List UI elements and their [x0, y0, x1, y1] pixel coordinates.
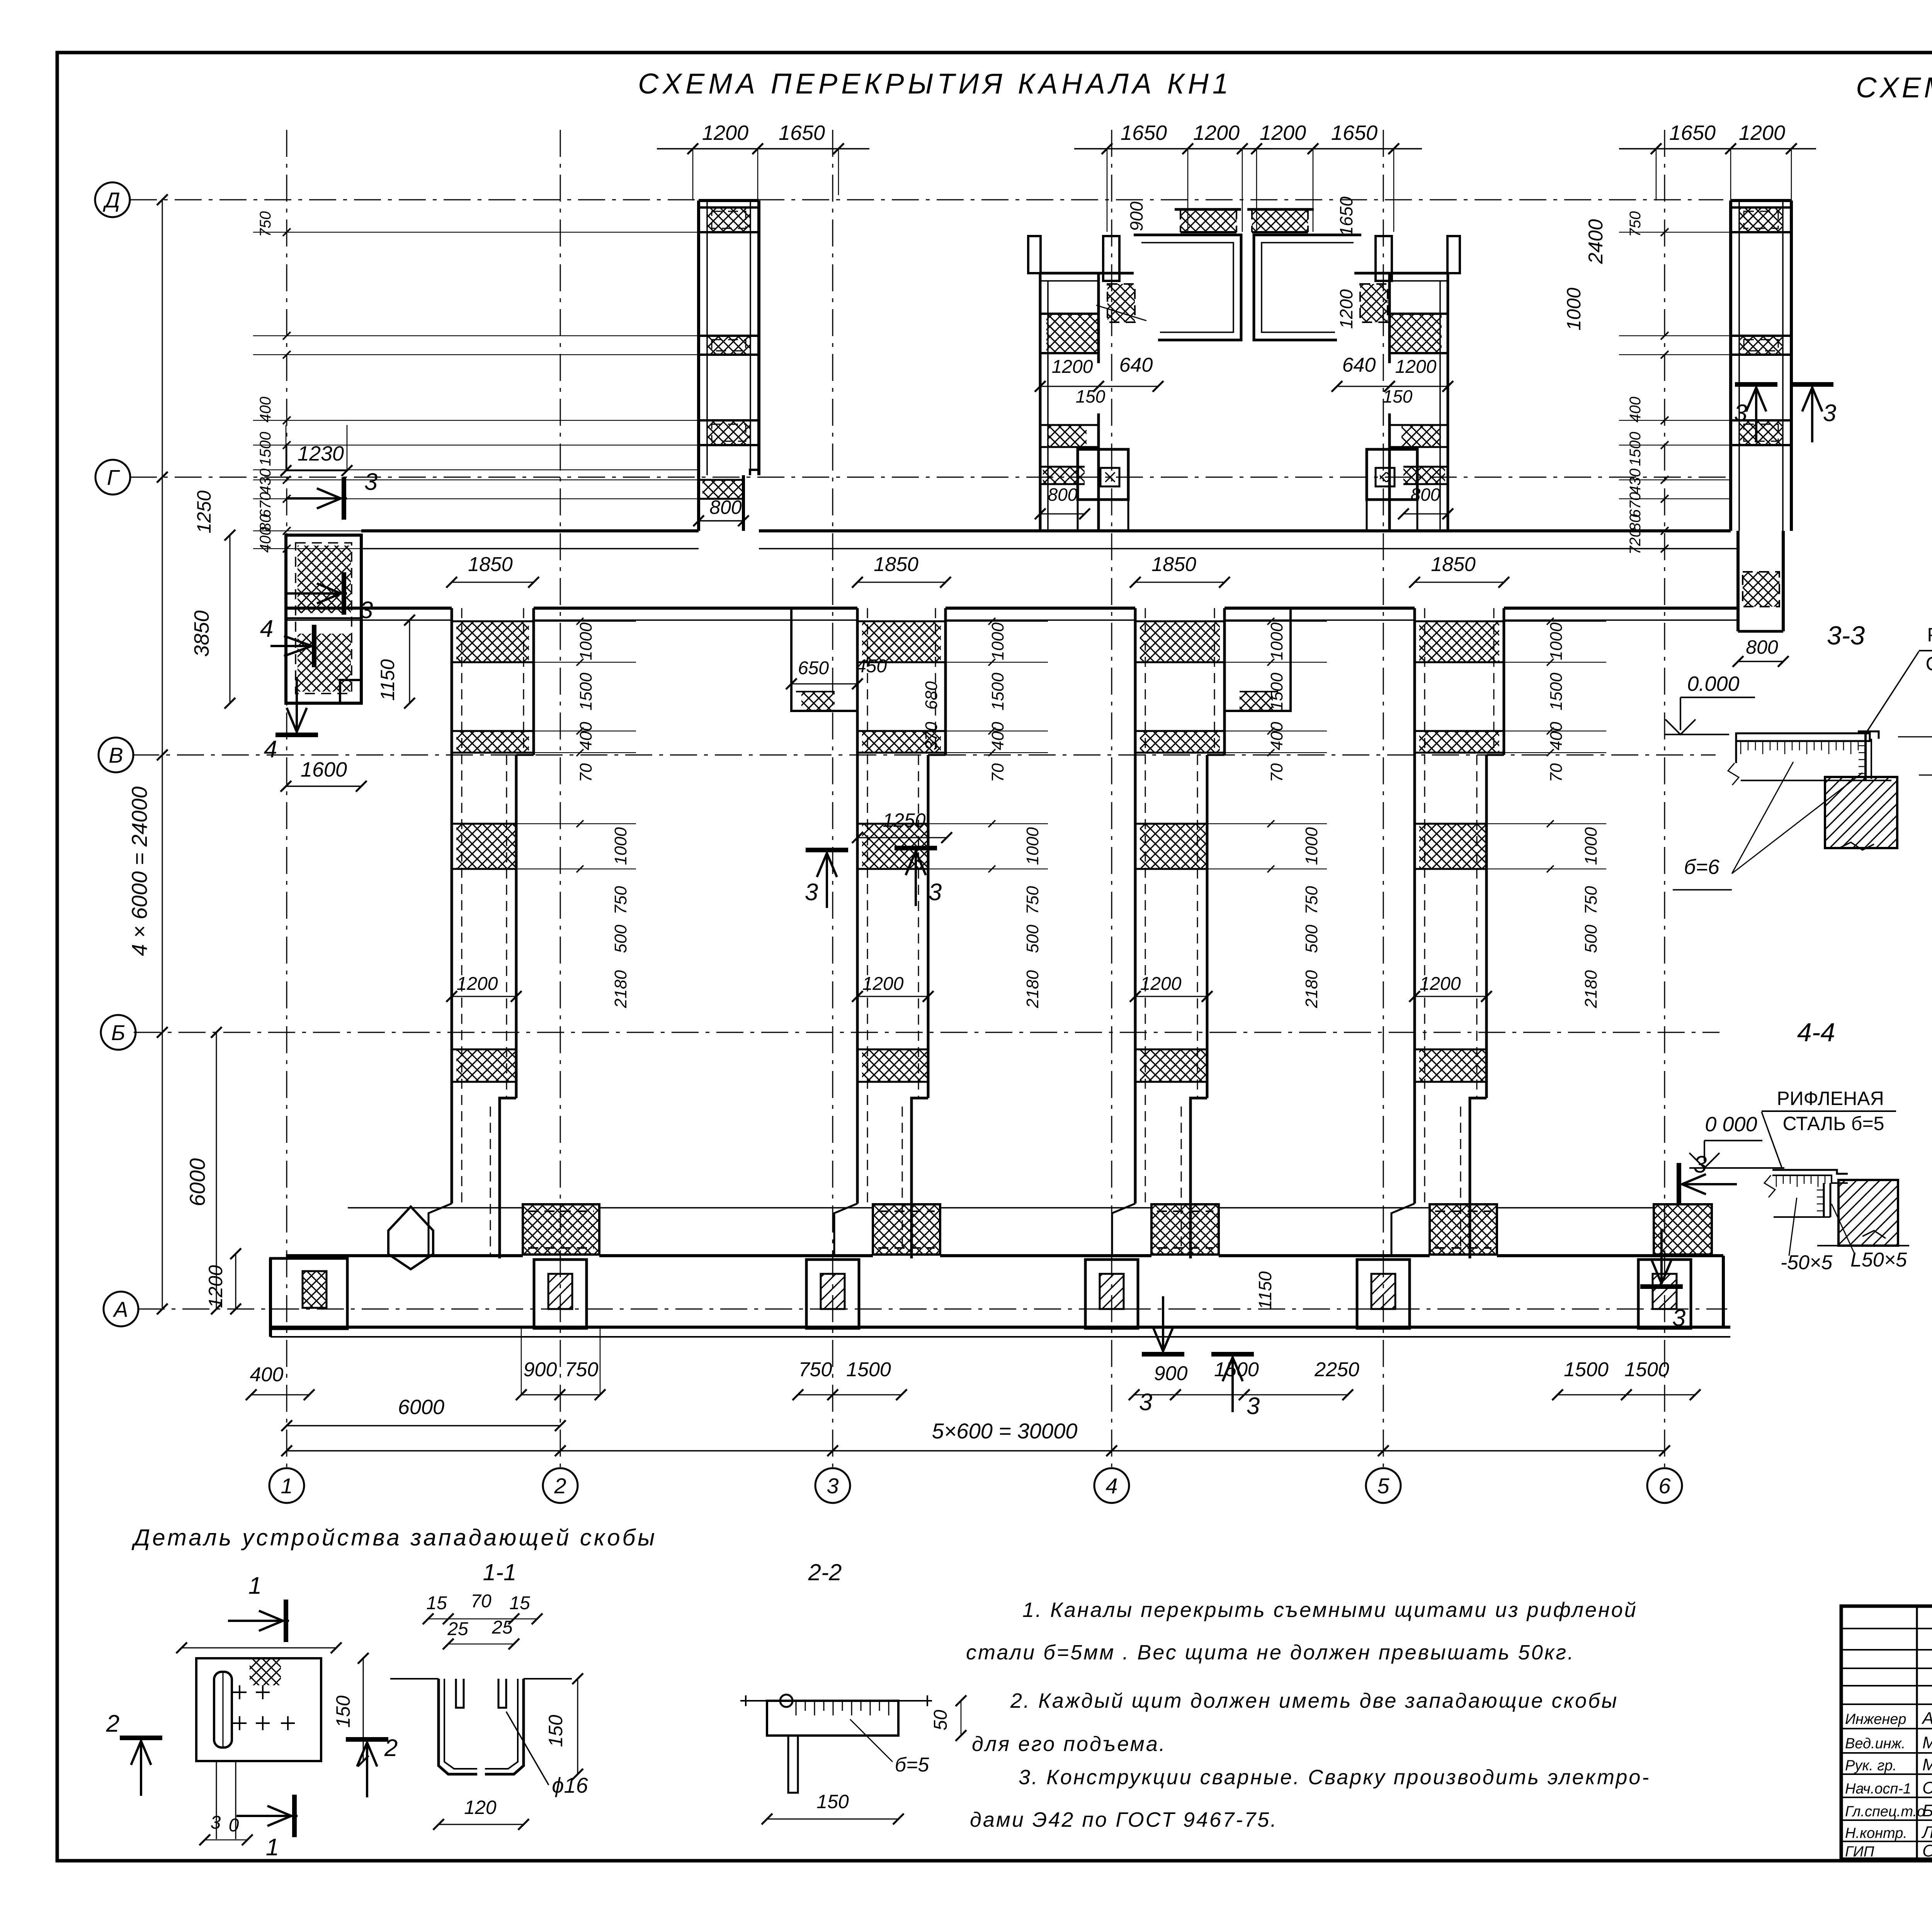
svg-text:70: 70: [471, 1591, 492, 1612]
svg-text:1: 1: [266, 1834, 279, 1861]
svg-text:3: 3: [1823, 400, 1836, 427]
section marks 3 under L2: [806, 848, 848, 852]
svg-text:1200: 1200: [1420, 974, 1461, 994]
channel strip D (top, near axis 6): [1731, 199, 1791, 202]
svg-text:400: 400: [1267, 722, 1286, 750]
section marks 3 at corner: [342, 477, 346, 520]
svg-text:750: 750: [1023, 886, 1042, 915]
svg-text:15: 15: [1930, 756, 1932, 776]
svg-text:РИФЛЕНАЯ: РИФЛЕНАЯ: [1777, 1088, 1884, 1109]
axis row A: [138, 1309, 1727, 1310]
svg-text:3: 3: [1734, 400, 1747, 427]
step structure right of L3: [1225, 608, 1291, 711]
svg-text:3. Конструкции сварные. Сва: 3. Конструкции сварные. Сварку производи…: [1019, 1766, 1650, 1789]
svg-text:Гл.спец.т.о: Гл.спец.т.о: [1845, 1804, 1925, 1820]
svg-text:3: 3: [827, 1474, 838, 1498]
concrete block (4-4): [1838, 1180, 1898, 1246]
svg-text:1150: 1150: [1255, 1271, 1275, 1309]
bracket slot: [214, 1672, 232, 1748]
marks 2 (detail plan): [120, 1736, 162, 1740]
svg-text:670: 670: [257, 492, 274, 518]
svg-text:1150: 1150: [377, 659, 398, 701]
svg-text:750: 750: [1302, 886, 1321, 915]
axis column 1: [286, 130, 287, 1467]
svg-text:1200: 1200: [1052, 357, 1093, 377]
svg-text:2: 2: [554, 1474, 566, 1498]
svg-text:3: 3: [1247, 1393, 1260, 1419]
svg-text:0 000: 0 000: [1705, 1113, 1757, 1136]
svg-text:400: 400: [1627, 397, 1644, 423]
svg-text:900: 900: [524, 1358, 557, 1381]
detail plan (bracket): [284, 1600, 288, 1642]
svg-text:СΧЕМА ПЕРЕКРЫТИЯ КАНАЛА КН2: СΧЕМА ПЕРЕКРЫТИЯ КАНАЛА КН2: [1856, 71, 1932, 104]
svg-text:25: 25: [447, 1619, 468, 1639]
svg-text:400: 400: [1547, 722, 1566, 750]
svg-text:1850: 1850: [468, 553, 513, 576]
svg-text:3-3: 3-3: [1827, 621, 1865, 650]
svg-text:150: 150: [545, 1715, 566, 1747]
section marks 3 at strip D: [1735, 382, 1777, 387]
svg-text:стали б=5мм . Вес щита не: стали б=5мм . Вес щита не должен превыша…: [966, 1641, 1575, 1664]
svg-text:Моргунов: Моргунов: [1922, 1755, 1932, 1774]
svg-text:2-2: 2-2: [808, 1559, 842, 1585]
C-channel structure at axis 5 (mirrored): [1447, 236, 1460, 273]
svg-text:1000: 1000: [1023, 827, 1042, 865]
svg-text:120: 120: [464, 1797, 497, 1818]
svg-text:1850: 1850: [1431, 553, 1476, 576]
svg-text:1230: 1230: [298, 442, 344, 465]
svg-text:400: 400: [257, 397, 274, 423]
strip A tail: [750, 470, 759, 475]
svg-text:1600: 1600: [301, 758, 347, 781]
svg-text:Г: Г: [107, 465, 120, 490]
svg-text:750: 750: [1582, 886, 1600, 915]
svg-text:1000: 1000: [1267, 622, 1286, 660]
svg-text:1650: 1650: [1336, 196, 1356, 236]
svg-text:1000: 1000: [1302, 827, 1321, 865]
main title block: [1841, 1606, 1932, 1859]
svg-text:5: 5: [1377, 1474, 1389, 1498]
svg-text:670: 670: [1627, 492, 1644, 518]
svg-text:1500: 1500: [1547, 673, 1566, 711]
svg-text:1500: 1500: [257, 432, 274, 466]
svg-text:1500: 1500: [1627, 432, 1644, 466]
svg-text:Макарова: Макарова: [1922, 1733, 1932, 1752]
svg-text:6000: 6000: [185, 1158, 209, 1207]
svg-text:640: 640: [1119, 354, 1153, 376]
svg-text:4: 4: [1105, 1474, 1117, 1498]
svg-text:1: 1: [281, 1474, 293, 1498]
svg-text:1200: 1200: [1193, 121, 1240, 144]
svg-text:0.000: 0.000: [1687, 672, 1739, 695]
svg-text:б=5: б=5: [895, 1754, 930, 1776]
hatch panel right end of bottom band: [1654, 1204, 1712, 1255]
svg-text:4 × 6000 = 24000: 4 × 6000 = 24000: [127, 786, 151, 956]
svg-text:900: 900: [1154, 1362, 1188, 1385]
svg-text:400: 400: [988, 722, 1007, 750]
svg-text:3: 3: [211, 1812, 221, 1833]
svg-text:2250: 2250: [1314, 1358, 1359, 1381]
svg-text:15: 15: [509, 1593, 530, 1613]
section marks 3 near axis 4 bottom: [1142, 1352, 1184, 1357]
svg-text:1200: 1200: [1140, 974, 1182, 994]
section 4-4 plate with bend: [1772, 1170, 1848, 1174]
svg-text:1200: 1200: [1739, 121, 1785, 144]
svg-text:1000: 1000: [988, 622, 1007, 660]
hexagon symbol: [388, 1207, 433, 1269]
svg-text:1200: 1200: [205, 1265, 226, 1308]
svg-text:1200: 1200: [702, 121, 748, 144]
section 2-2 drawing: [740, 1700, 932, 1702]
svg-text:Инженер: Инженер: [1845, 1711, 1906, 1727]
svg-text:720: 720: [1627, 529, 1644, 555]
svg-text:1200: 1200: [862, 974, 904, 994]
C-channel structure at axis 4: [1028, 236, 1041, 273]
svg-text:L50×5: L50×5: [1850, 1249, 1907, 1271]
svg-text:2: 2: [384, 1735, 398, 1761]
footing boxes in bottom band (axes 2-6): [534, 1260, 587, 1328]
bottom channel band: [286, 1254, 523, 1257]
svg-text:500: 500: [1023, 925, 1042, 953]
horizontal channel band bottom wall: [286, 607, 452, 610]
svg-text:В: В: [109, 743, 123, 767]
dim 30 + mark 1 (bottom): [216, 1761, 217, 1839]
svg-text:2400: 2400: [1585, 219, 1607, 264]
svg-text:Н.контр.: Н.контр.: [1845, 1825, 1907, 1841]
axis row G: [130, 477, 1727, 478]
svg-text:Луценко: Луценко: [1921, 1823, 1932, 1842]
svg-text:СТАЛЬ б=5: СТАЛЬ б=5: [1926, 653, 1932, 675]
svg-text:3: 3: [929, 879, 942, 906]
svg-text:СΧЕМА ПЕРЕКРЫТИЯ КАНАЛА КН1: СΧЕМА ПЕРЕКРЫТИЯ КАНАЛА КН1: [638, 68, 1232, 100]
svg-text:-50×5: -50×5: [1781, 1251, 1833, 1274]
svg-text:б=6: б=6: [1684, 855, 1720, 879]
left corner channel box: [286, 535, 361, 703]
svg-text:900: 900: [1126, 201, 1146, 231]
svg-text:2180: 2180: [611, 970, 630, 1008]
svg-text:800: 800: [1048, 484, 1078, 505]
svg-text:1200: 1200: [1395, 357, 1437, 377]
svg-text:750: 750: [611, 886, 630, 915]
top hatch panel of left C hook: [1180, 209, 1236, 232]
svg-text:1250: 1250: [883, 809, 925, 831]
svg-text:3: 3: [805, 879, 818, 906]
svg-text:450: 450: [856, 656, 887, 677]
svg-text:1200: 1200: [457, 974, 498, 994]
hatch boxes above bottom band: [523, 1204, 599, 1255]
section marks 4 at corner: [270, 645, 311, 647]
svg-text:3: 3: [1139, 1389, 1152, 1416]
section 3-3 plate: [1736, 733, 1870, 741]
svg-text:1500: 1500: [1214, 1358, 1259, 1381]
svg-text:Рук. гр.: Рук. гр.: [1845, 1758, 1897, 1774]
svg-text:500: 500: [1302, 925, 1321, 953]
svg-text:3: 3: [360, 597, 373, 624]
svg-text:400: 400: [577, 722, 595, 750]
svg-text:70: 70: [1547, 763, 1566, 782]
axis row B: [134, 1032, 1719, 1033]
svg-text:430: 430: [257, 469, 274, 495]
svg-text:1650: 1650: [1331, 121, 1378, 144]
svg-text:680: 680: [922, 681, 941, 710]
svg-text:4: 4: [260, 615, 273, 642]
svg-text:430: 430: [1627, 469, 1644, 495]
svg-text:750: 750: [565, 1358, 599, 1381]
svg-text:1500: 1500: [1624, 1358, 1669, 1381]
svg-text:500: 500: [1582, 925, 1600, 953]
svg-text:2: 2: [106, 1710, 119, 1737]
section mark 3 right bottom (axis 6): [1677, 1163, 1681, 1205]
svg-text:2180: 2180: [1302, 970, 1321, 1008]
svg-text:2180: 2180: [1582, 970, 1600, 1008]
svg-text:3850: 3850: [190, 610, 213, 657]
svg-text:1. Каналы перекрыть съемным: 1. Каналы перекрыть съемными щитами из р…: [1022, 1598, 1638, 1622]
svg-text:Нач.осп-1: Нач.осп-1: [1845, 1781, 1911, 1797]
axis column 3: [832, 130, 833, 1467]
svg-text:4-4: 4-4: [1797, 1018, 1835, 1047]
svg-text:1650: 1650: [1121, 121, 1167, 144]
horizontal channel band top wall: [361, 529, 699, 532]
svg-text:ɸ16: ɸ16: [552, 1773, 588, 1797]
axis column 4: [1111, 130, 1112, 1467]
svg-text:1500: 1500: [1564, 1358, 1609, 1381]
svg-text:800: 800: [1411, 484, 1440, 505]
svg-text:1500: 1500: [577, 673, 595, 711]
svg-text:3: 3: [1672, 1305, 1685, 1331]
svg-text:1650: 1650: [779, 121, 825, 144]
svg-text:4: 4: [264, 736, 277, 763]
svg-text:640: 640: [1342, 354, 1376, 376]
svg-text:1000: 1000: [1563, 287, 1585, 330]
svg-text:150: 150: [1076, 386, 1105, 406]
svg-text:1500: 1500: [988, 673, 1007, 711]
top hatch panel of right C hook: [1252, 209, 1308, 232]
svg-text:А: А: [112, 1297, 128, 1321]
svg-text:3: 3: [364, 469, 378, 495]
svg-text:1200: 1200: [1260, 121, 1306, 144]
axis column 5: [1383, 130, 1384, 1467]
svg-text:370: 370: [922, 722, 941, 750]
svg-text:25: 25: [492, 1617, 513, 1638]
corner box at axis1/A: [270, 1258, 347, 1329]
svg-text:400: 400: [250, 1363, 284, 1386]
svg-text:50: 50: [930, 1710, 951, 1731]
svg-text:Вед.инж.: Вед.инж.: [1845, 1736, 1905, 1752]
strip D tail into band: [1736, 531, 1740, 631]
svg-text:750: 750: [799, 1358, 832, 1381]
svg-text:1000: 1000: [611, 827, 630, 865]
svg-text:Д: Д: [102, 188, 120, 212]
svg-text:1000: 1000: [1582, 827, 1600, 865]
svg-text:0: 0: [229, 1815, 239, 1836]
axis row D: [130, 199, 1723, 201]
svg-text:150: 150: [816, 1791, 849, 1812]
angle at plate end (3-3): [1858, 731, 1879, 739]
svg-text:Б: Б: [111, 1020, 125, 1045]
svg-text:Андреева: Андреева: [1921, 1709, 1932, 1728]
svg-text:РИФЛЕНАЯ: РИФЛЕНАЯ: [1927, 624, 1932, 646]
svg-text:5×600 = 30000: 5×600 = 30000: [932, 1419, 1078, 1443]
svg-text:650: 650: [798, 658, 829, 678]
svg-text:6000: 6000: [398, 1396, 444, 1419]
svg-text:Деталь устройства западающей с: Деталь устройства западающей скобы: [131, 1525, 657, 1550]
svg-text:ГИП: ГИП: [1845, 1844, 1874, 1860]
svg-text:80: 80: [1627, 514, 1644, 532]
svg-text:150: 150: [332, 1695, 354, 1728]
svg-text:дами Э42 по ГОСТ 9467-75: дами Э42 по ГОСТ 9467-75.: [970, 1808, 1278, 1831]
svg-text:15: 15: [426, 1593, 447, 1613]
svg-text:2180: 2180: [1023, 970, 1042, 1008]
svg-text:2. Каждый щит должен иметь: 2. Каждый щит должен иметь две западающи…: [1010, 1689, 1618, 1712]
svg-text:1-1: 1-1: [483, 1559, 517, 1585]
svg-text:1000: 1000: [1547, 622, 1566, 660]
concrete block (3-3): [1825, 777, 1897, 848]
axis column 2: [560, 130, 561, 1467]
axis column 6: [1664, 130, 1665, 1467]
svg-text:70: 70: [1267, 763, 1286, 782]
svg-text:800: 800: [709, 496, 742, 518]
svg-text:Осташевский: Осташевский: [1922, 1841, 1932, 1860]
svg-text:500: 500: [611, 925, 630, 953]
svg-text:1200: 1200: [1336, 289, 1356, 329]
axis row V: [132, 755, 1716, 756]
svg-text:70: 70: [988, 763, 1007, 782]
svg-text:СТАЛЬ б=5: СТАЛЬ б=5: [1783, 1113, 1884, 1134]
svg-text:1850: 1850: [1151, 553, 1196, 576]
svg-text:1500: 1500: [846, 1358, 891, 1381]
svg-text:1000: 1000: [577, 622, 595, 660]
svg-text:800: 800: [1746, 636, 1778, 658]
svg-text:1250: 1250: [193, 490, 215, 533]
svg-text:Саакьянц: Саакьянц: [1922, 1778, 1932, 1797]
svg-text:6: 6: [1658, 1474, 1671, 1498]
signature table: [1841, 1628, 1932, 1629]
svg-text:1850: 1850: [874, 553, 918, 576]
svg-text:750: 750: [257, 211, 274, 237]
channel strip A (top, between axes 2 and 3): [699, 199, 759, 202]
svg-text:750: 750: [1627, 211, 1644, 237]
svg-text:1: 1: [248, 1572, 262, 1599]
vertical strip -50x5 (4-4): [1823, 1183, 1825, 1217]
svg-text:70: 70: [577, 763, 595, 782]
svg-text:Боярченко: Боярченко: [1922, 1801, 1932, 1820]
svg-text:для его подъема.: для его подъема.: [972, 1732, 1167, 1756]
step structure left of L2: [791, 608, 857, 711]
svg-text:1650: 1650: [1669, 121, 1716, 144]
